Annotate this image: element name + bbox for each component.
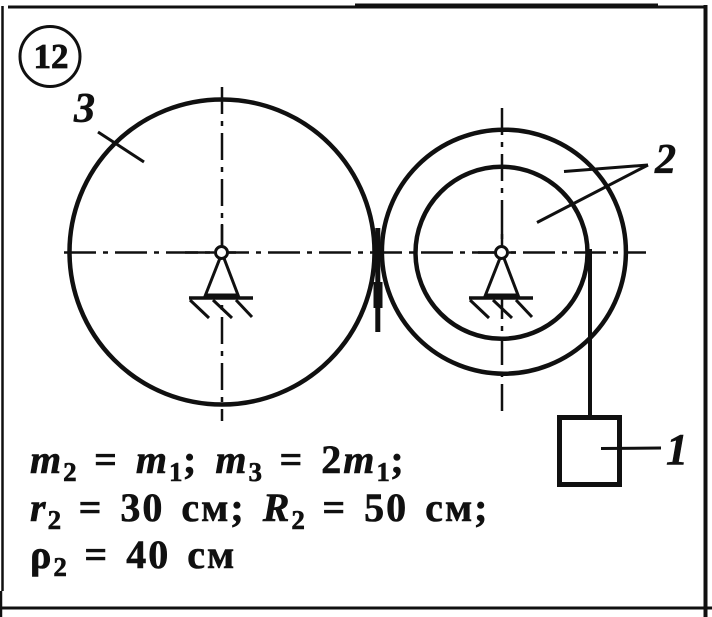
wheel 3 vertical centerline	[221, 87, 224, 421]
centerline dash at pulley 2 pivot	[478, 251, 516, 254]
leader line to weight 1	[601, 447, 661, 451]
pivot support of wheel 3	[189, 247, 253, 319]
label 1	[666, 428, 688, 472]
frame: top border	[8, 6, 707, 9]
frame: left border	[1, 6, 4, 591]
tangency blob between wheel 3 and pulley 2	[375, 228, 380, 332]
svg-text:12: 12	[34, 37, 69, 76]
wheel 3	[70, 100, 375, 405]
leader lines to pulley 2	[564, 165, 648, 172]
label 3	[74, 88, 95, 130]
frame: right border	[704, 5, 708, 617]
pulley 2 inner circle	[416, 167, 588, 339]
weight 1	[560, 418, 620, 485]
centerline dash at wheel 3 pivot	[185, 251, 236, 254]
horizontal centerline	[64, 251, 646, 254]
figure number badge 12	[20, 27, 80, 87]
rope	[588, 249, 592, 418]
pulley 2 outer circle	[382, 130, 626, 374]
pivot support of pulley 2	[469, 247, 533, 319]
frame: bottom border	[0, 607, 712, 610]
label 2	[655, 139, 676, 181]
parameters text	[30, 436, 490, 579]
leader line to wheel 3	[98, 132, 144, 162]
pulley 2 vertical centerline	[501, 108, 504, 411]
